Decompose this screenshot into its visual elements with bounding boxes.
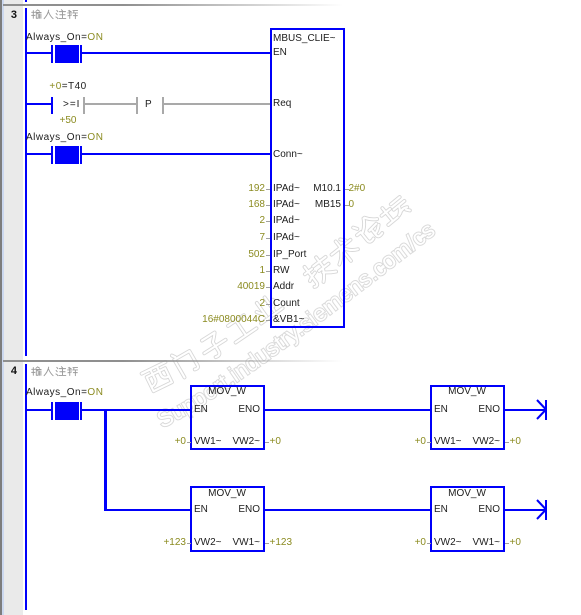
input value +0 (first row left) <box>146 434 186 450</box>
value 16#0800044C <box>150 312 265 328</box>
label Always_On=ON (network 4) <box>26 385 103 401</box>
wire branch to MOV_W block 3 EN <box>104 509 190 511</box>
pin VW2~ (first row left) <box>220 434 260 450</box>
wire MOV_W 1 ENO to MOV_W 2 EN <box>264 409 430 411</box>
pin tick <box>266 271 270 272</box>
label +50 (comparison operand 2) <box>28 113 108 129</box>
value 2 <box>150 213 265 229</box>
contact Always_On (rung 3, energized) <box>51 146 53 164</box>
function block MBUS_CLIE~ <box>270 28 345 328</box>
label +0=T40 (comparison operand 1) <box>28 79 108 95</box>
function block MOV_W (second row right) <box>430 486 505 552</box>
comparison contact >=I right leg <box>83 97 85 114</box>
pin tick <box>266 238 270 239</box>
output tick <box>265 543 269 544</box>
MBUS_CLIE~ title <box>273 31 336 47</box>
open wire arrow (first row) <box>530 395 554 425</box>
input tick <box>187 543 191 544</box>
output tick <box>345 205 349 206</box>
output operand MB15 <box>300 197 341 213</box>
output tick <box>345 189 349 190</box>
pin tick <box>266 255 270 256</box>
value 7 <box>150 230 265 246</box>
wire contact to EN of MBUS block <box>82 52 270 54</box>
output operand M10.1 <box>300 181 341 197</box>
pin Req <box>273 96 291 112</box>
pin IPAd~ <box>273 230 300 246</box>
output value +0 (first row left) <box>270 434 281 450</box>
pin ENO (second row right) <box>460 502 500 518</box>
pin Conn~ <box>273 147 303 163</box>
network 3 number <box>0 8 17 22</box>
value 168 <box>150 197 265 213</box>
pin Addr <box>273 279 294 295</box>
branch wire down to second rung <box>104 409 107 511</box>
input tick <box>427 543 431 544</box>
pin EN (second row right) <box>434 502 448 518</box>
pin EN (second row left) <box>194 502 208 518</box>
window left edge chrome <box>0 0 2 615</box>
MOV_W title (first row left) <box>190 384 264 400</box>
pin IPAd~ <box>273 197 300 213</box>
pin EN (first row right) <box>434 402 448 418</box>
network 3 separator line <box>3 4 348 6</box>
pin IPAd~ <box>273 181 300 197</box>
output value 0 <box>349 197 355 213</box>
function block MOV_W (first row right) <box>430 385 505 450</box>
value 40019 <box>150 279 265 295</box>
open wire arrow (second row) <box>530 495 554 525</box>
pin tick <box>266 189 270 190</box>
contact Always_On (network 4, energized) <box>51 402 53 420</box>
pin VW1~ (second row right) <box>460 535 500 551</box>
wire rail to contact (rung 3) <box>25 153 51 155</box>
pin VW1~ (first row right) <box>434 434 462 450</box>
function block MOV_W (first row left) <box>190 385 265 450</box>
network 4 number <box>0 364 17 378</box>
network 4 comment 输入注释 <box>31 366 42 377</box>
MOV_W title (second row right) <box>430 486 504 502</box>
label Always_On=ON (rung 1) <box>26 30 103 46</box>
wire rail to contact (rung 1) <box>25 52 51 54</box>
MOV_W title (first row right) <box>430 384 504 400</box>
pin tick <box>266 221 270 222</box>
pin VW2~ (second row left) <box>194 535 222 551</box>
function block MOV_W (second row left) <box>190 486 265 552</box>
pin tick <box>266 205 270 206</box>
pin tick <box>266 320 270 321</box>
pin ENO (second row left) <box>220 502 260 518</box>
pin &VB1~ <box>273 312 304 328</box>
network 4 left power rail <box>25 364 27 610</box>
wire contact to MOV_W block 1 EN <box>82 409 190 411</box>
output value +123 (second row left) <box>270 535 293 551</box>
pin VW1~ (second row left) <box>220 535 260 551</box>
positive edge contact P label <box>145 97 152 113</box>
pin Count <box>273 296 300 312</box>
pin VW2~ (second row right) <box>434 535 462 551</box>
pin RW <box>273 263 289 279</box>
network number gutter <box>4 0 23 615</box>
pin EN <box>273 45 287 61</box>
label Always_On=ON (rung 3) <box>26 130 103 146</box>
output tick <box>505 543 509 544</box>
output tick <box>265 442 269 443</box>
wire rail to contact (network 4) <box>25 409 51 411</box>
pin tick <box>266 304 270 305</box>
network 3 comment 输入注释 <box>31 9 42 20</box>
pin EN (first row left) <box>194 402 208 418</box>
pin IPAd~ <box>273 213 300 229</box>
value 1 <box>150 263 265 279</box>
wire P contact to Req pin <box>164 103 270 105</box>
network 4 separator line <box>3 360 348 362</box>
wire rail to comparison contact (rung 2) <box>25 103 51 105</box>
pin VW1~ (first row left) <box>194 434 222 450</box>
contact Always_On (rung 1, energized) <box>51 45 53 63</box>
positive edge contact P left leg <box>136 97 138 114</box>
wire MOV_W 2 ENO to open arrow <box>504 409 545 411</box>
input value +0 (second row right) <box>386 535 426 551</box>
output tick <box>505 442 509 443</box>
pin IP_Port <box>273 247 306 263</box>
pin tick <box>266 287 270 288</box>
wire contact to Conn pin <box>82 153 270 155</box>
wire comparison to P contact <box>85 103 136 105</box>
input tick <box>187 442 191 443</box>
value 2 <box>150 296 265 312</box>
output value +0 (second row right) <box>510 535 521 551</box>
wire MOV_W 3 ENO to MOV_W 4 EN <box>264 509 430 511</box>
input value +123 (second row left) <box>146 535 186 551</box>
comparison contact >=I label <box>63 97 80 113</box>
pin ENO (first row right) <box>460 402 500 418</box>
previous network rail stub <box>25 0 27 2</box>
input value +0 (first row right) <box>386 434 426 450</box>
pin ENO (first row left) <box>220 402 260 418</box>
pin VW2~ (first row right) <box>460 434 500 450</box>
MOV_W title (second row left) <box>190 486 264 502</box>
positive edge contact P right leg <box>162 97 164 114</box>
output value 2#0 <box>349 181 366 197</box>
network 3 left power rail <box>25 8 27 356</box>
output value +0 (first row right) <box>510 434 521 450</box>
comparison contact >=I left leg (energized) <box>51 97 53 114</box>
value 192 <box>150 181 265 197</box>
value 502 <box>150 247 265 263</box>
input tick <box>427 442 431 443</box>
wire MOV_W 4 ENO to open arrow <box>504 509 545 511</box>
